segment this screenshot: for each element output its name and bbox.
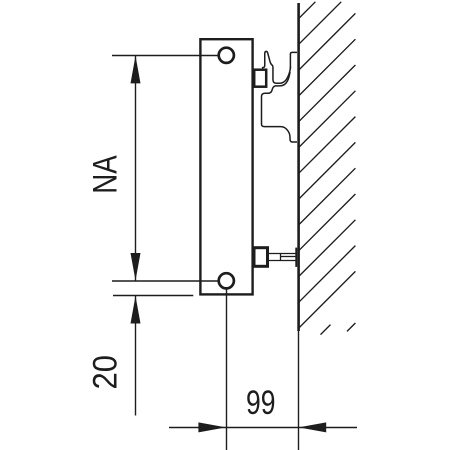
- 99 dimension line: [169, 427, 357, 429]
- NA dimension arrow down: [131, 253, 141, 281]
- 20 dimension arrow up: [131, 296, 141, 324]
- extension line down from bottom circle: [226, 290, 228, 450]
- top bracket lower arm and foot ledge: [262, 72, 298, 142]
- radiator bottom mounting lug block: [254, 248, 268, 267]
- NA dimension line: [135, 56, 137, 282]
- extension line down from wall: [298, 331, 300, 450]
- 99 dimension arrow right: [198, 422, 226, 432]
- extension line radiator bottom edge: [113, 295, 193, 297]
- extension line bottom circle centre: [112, 280, 219, 282]
- svg-text:20: 20: [87, 355, 125, 390]
- radiator top mounting lug: [254, 70, 266, 87]
- wall line: [297, 3, 300, 331]
- 20 dimension line: [135, 296, 137, 416]
- NA dimension arrow up: [131, 56, 141, 84]
- top bracket wall plate: [290, 52, 297, 68]
- radiator bottom pipe port circle: [219, 273, 234, 288]
- radiator top pipe port circle: [219, 48, 234, 63]
- bottom bracket screw rod: [268, 254, 296, 261]
- bottom bracket wall plug flange: [295, 248, 297, 267]
- top bracket hook finger and upper arm: [262, 51, 291, 83]
- extension line top circle centre: [112, 55, 219, 57]
- svg-text:NA: NA: [87, 155, 125, 194]
- radiator body: [200, 39, 252, 294]
- svg-text:99: 99: [246, 384, 276, 422]
- 99 dimension arrow left: [299, 422, 327, 432]
- wall hatching: [298, 2, 355, 335]
